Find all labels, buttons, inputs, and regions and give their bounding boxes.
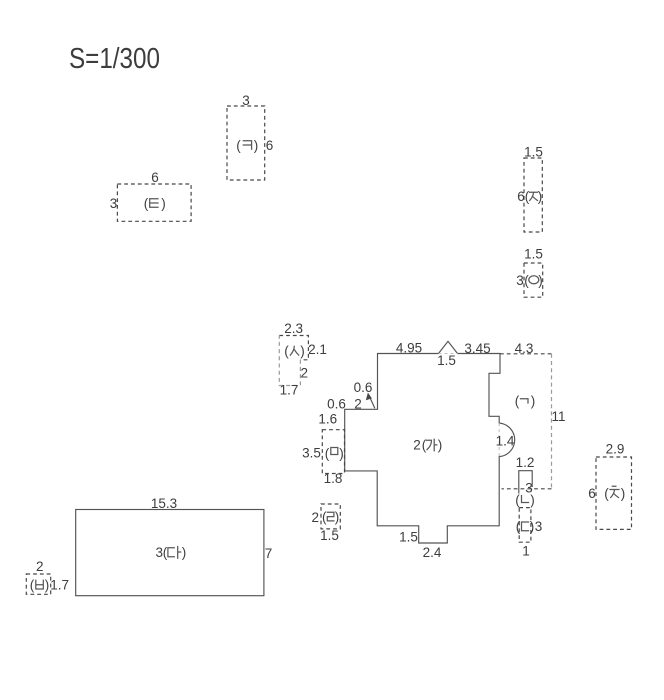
svg-text:6: 6 [151,170,159,185]
svg-text:): ) [339,446,344,461]
svg-text:): ) [530,519,535,534]
svg-text:(: ( [525,189,530,204]
svg-text:2.1: 2.1 [308,342,327,357]
svg-text:3: 3 [535,519,543,534]
svg-text:(: ( [516,519,521,534]
svg-text:(: ( [325,446,330,461]
svg-text:6: 6 [588,486,596,501]
svg-text:3: 3 [110,196,118,211]
svg-text:1: 1 [522,544,530,559]
svg-text:): ) [438,438,443,453]
svg-text:6: 6 [266,138,274,153]
svg-text:4.95: 4.95 [396,340,422,355]
svg-text:(: ( [30,578,35,593]
svg-text:15.3: 15.3 [151,496,177,511]
svg-text:1.4: 1.4 [496,434,515,449]
svg-text:): ) [538,189,543,204]
svg-text:0.6: 0.6 [327,397,346,412]
svg-text:2: 2 [354,397,362,412]
svg-text:(: ( [144,196,149,211]
svg-text:(: ( [284,344,289,359]
svg-text:): ) [161,196,166,211]
svg-text:): ) [530,493,535,508]
svg-text:1.5: 1.5 [399,530,418,545]
svg-text:1.5: 1.5 [524,145,543,160]
svg-text:3: 3 [516,273,524,288]
svg-text:): ) [335,510,340,525]
svg-text:3: 3 [242,93,250,108]
svg-text:2: 2 [312,510,320,525]
svg-text:): ) [45,578,50,593]
svg-text:): ) [182,545,187,560]
svg-text:1.5: 1.5 [524,247,543,262]
svg-text:7: 7 [265,546,273,561]
svg-text:2: 2 [301,366,309,381]
svg-text:2: 2 [413,438,421,453]
svg-text:(: ( [515,394,520,409]
svg-text:6: 6 [517,189,525,204]
svg-text:2.4: 2.4 [423,545,442,560]
svg-text:): ) [300,344,305,359]
svg-text:1.7: 1.7 [50,578,69,593]
svg-text:): ) [621,486,626,501]
svg-text:0.6: 0.6 [354,380,373,395]
svg-text:(: ( [163,545,168,560]
svg-text:): ) [538,273,543,288]
svg-text:11: 11 [551,409,565,424]
svg-text:): ) [254,138,259,153]
svg-text:(: ( [322,510,327,525]
svg-text:2.9: 2.9 [606,442,625,457]
svg-text:(: ( [604,486,609,501]
svg-text:2.3: 2.3 [284,321,303,336]
svg-text:1.6: 1.6 [318,412,337,427]
svg-text:): ) [531,394,536,409]
svg-text:2: 2 [36,559,44,574]
svg-text:S=1/300: S=1/300 [69,43,160,75]
svg-text:(: ( [236,138,241,153]
svg-text:1.7: 1.7 [280,383,299,398]
svg-text:3.5: 3.5 [302,446,321,461]
svg-text:1.5: 1.5 [320,528,339,543]
svg-text:(: ( [515,493,520,508]
svg-text:1.5: 1.5 [437,353,456,368]
svg-text:3.45: 3.45 [464,341,490,356]
svg-text:1.2: 1.2 [516,455,535,470]
